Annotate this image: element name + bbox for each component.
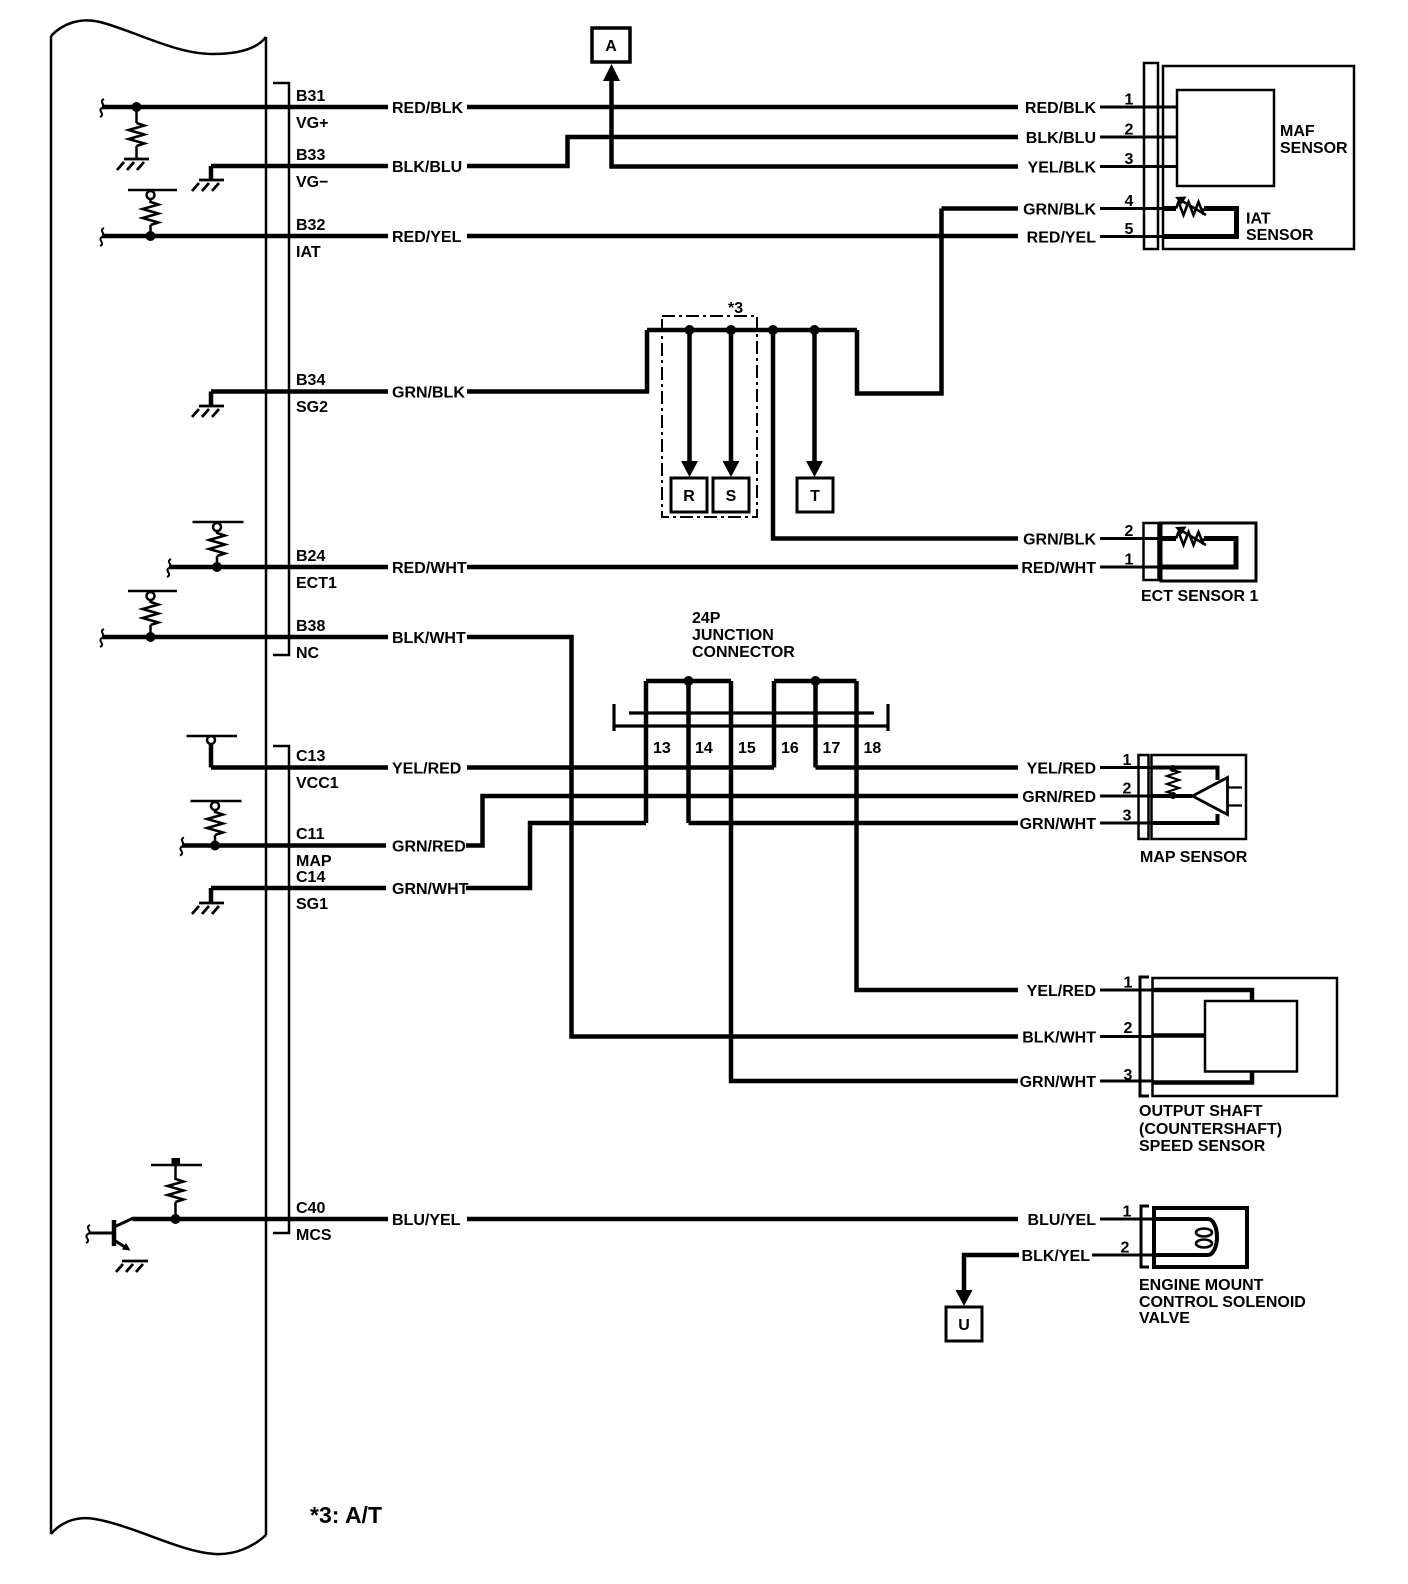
node junction dot B38 [146, 632, 156, 642]
wire label GRN/RED right [1019, 787, 1099, 806]
wire label GRN/WHT right (MAP 3) [1019, 814, 1099, 833]
power rail bar (B32 pull-up) [128, 189, 177, 192]
svg-text:S: S [726, 488, 737, 505]
wire label RED/YEL right [1019, 228, 1099, 247]
node dot MAP resistor top [1170, 765, 1177, 772]
svg-text:BLK/BLU: BLK/BLU [392, 159, 462, 176]
node junction dot B24 [212, 562, 222, 572]
svg-text:18: 18 [864, 740, 882, 757]
svg-text:T: T [810, 488, 820, 505]
svg-text:IAT: IAT [1246, 211, 1271, 228]
wire label YEL/RED left [388, 759, 467, 778]
svg-text:A: A [605, 38, 617, 55]
wire stub speed sensor pin 1 [1100, 989, 1153, 992]
svg-text:YEL/BLK: YEL/BLK [1028, 160, 1097, 177]
svg-text:GRN/BLK: GRN/BLK [1023, 532, 1096, 549]
wire label GRN/BLK right (ECT 2) [1019, 530, 1099, 549]
resistor R3 (B24 pull-up) [209, 531, 225, 567]
ground G3 (SG2) [192, 406, 224, 417]
MAF sensor connector bar [1144, 63, 1158, 249]
ground G2 (VG-) [192, 180, 224, 191]
svg-text:RED/BLK: RED/BLK [1025, 100, 1097, 117]
wire stub MAF pin 1 [1100, 106, 1177, 109]
flag S drop wire [729, 330, 734, 463]
wire label BLK/WHT right (speed 2) [1019, 1028, 1099, 1047]
svg-text:RED/YEL: RED/YEL [392, 229, 462, 246]
MAF sensor element box [1177, 90, 1274, 186]
MAP sensor outer box [1152, 755, 1247, 839]
wire stub ECT pin 2 [1100, 537, 1161, 540]
svg-text:B31: B31 [296, 88, 325, 105]
wire label GRN/WHT right (speed 3) [1019, 1072, 1099, 1091]
junction column 13 [644, 681, 649, 823]
flag A arrowhead [603, 64, 620, 81]
svg-text:SG1: SG1 [296, 896, 328, 913]
svg-text:2: 2 [1123, 781, 1132, 798]
junction staple pins 16-18 [774, 679, 857, 684]
wire C14 SG1 GRN/WHT row jog up to junction pin 13 [211, 886, 386, 891]
op-amp triangle MAP [1193, 778, 1228, 815]
power rail bar (C13 VCC) [187, 735, 238, 738]
svg-text:JUNCTION: JUNCTION [692, 627, 774, 644]
wire stub MAP pin 3 [1100, 822, 1152, 825]
resistor R1 (B31 pull-down) [129, 107, 145, 158]
wire stub MAF pin 4 [1100, 207, 1174, 210]
svg-text:3: 3 [1124, 1067, 1133, 1084]
flag S box [713, 478, 749, 512]
svg-text:BLK/BLU: BLK/BLU [1026, 130, 1096, 147]
power rail bar (B38 pull-up) [128, 590, 177, 593]
speed sensor internal lead pin 3 [1153, 1072, 1253, 1083]
IAT sensor element (thermistor loop) [1163, 206, 1176, 211]
svg-text:C13: C13 [296, 748, 325, 765]
flag T arrowhead [806, 461, 823, 477]
power rail bar (B24 pull-up) [193, 521, 244, 524]
wire stub MAF pin 5 [1100, 235, 1166, 238]
wire label BLK/BLU left [388, 157, 467, 176]
node junction dot staple pin 17 [811, 676, 821, 686]
node junction dot B32 [146, 231, 156, 241]
svg-text:BLU/YEL: BLU/YEL [1028, 1212, 1097, 1229]
svg-text:BLU/YEL: BLU/YEL [392, 1212, 461, 1229]
node open circle C13 [207, 736, 215, 744]
svg-text:(COUNTERSHAFT): (COUNTERSHAFT) [1139, 1121, 1282, 1138]
wire junction pin 14 to MAP pin 3 GRN/WHT [689, 821, 1019, 826]
svg-text:NC: NC [296, 645, 320, 662]
node junction dot staple pin 14 [684, 676, 694, 686]
node junction dot bus S tap [726, 325, 736, 335]
speed sensor outer box [1153, 978, 1338, 1096]
svg-text:1: 1 [1125, 92, 1134, 109]
node dot MAP resistor bottom [1170, 792, 1177, 799]
svg-text:C40: C40 [296, 1200, 325, 1217]
resistor R7 (MAP internal) [1167, 768, 1179, 797]
ground G5 (emitter) [116, 1261, 148, 1272]
flag R arrowhead [681, 461, 698, 477]
flag U box [946, 1307, 982, 1341]
svg-text:BLK/YEL: BLK/YEL [1022, 1248, 1091, 1265]
svg-text:RED/BLK: RED/BLK [392, 100, 464, 117]
MAP sensor internal ground wire [1152, 814, 1218, 823]
MAP sensor connector bar [1139, 755, 1149, 839]
MAP sensor internal supply wire [1152, 768, 1218, 781]
flag S arrowhead [723, 461, 740, 477]
power rail bar (C40 pull-up) [151, 1164, 202, 1167]
resistor R4 (B38 pull-up) [143, 600, 159, 637]
wire B24 ECT1 RED/WHT row to ECT pin 1 [169, 565, 1018, 570]
svg-text:YEL/RED: YEL/RED [1027, 761, 1096, 778]
junction column 16 [772, 681, 777, 768]
thermistor symbol ECT [1176, 532, 1204, 545]
wire SG2 to ground [209, 392, 214, 406]
junction column 17 [813, 681, 818, 768]
node open circle B38 [147, 592, 155, 600]
wire label BLK/BLU right [1019, 128, 1099, 147]
wire stub MAF pin 2 [1100, 136, 1177, 139]
wire C13 up to power rail [209, 743, 214, 768]
svg-text:15: 15 [738, 740, 756, 757]
svg-text:1: 1 [1124, 975, 1133, 992]
transistor Q1 base lead [89, 1232, 115, 1235]
wire label RED/YEL left [388, 227, 467, 246]
wire C40 MCS BLU/YEL row to solenoid pin 1 [133, 1217, 1019, 1222]
speed sensor internal lead pin 2 [1153, 1033, 1206, 1038]
svg-text:C11: C11 [296, 826, 325, 843]
wire bus step down to GRN/BLK vertical [857, 209, 942, 394]
wire stub speed sensor pin 2 [1100, 1035, 1153, 1038]
svg-text:BLK/WHT: BLK/WHT [392, 630, 466, 647]
wire junction pin 18 down to speed sensor pin 1 YEL/RED [857, 681, 1019, 990]
ECM torn-edge body outline [51, 20, 266, 1554]
svg-text:1: 1 [1123, 752, 1132, 769]
node junction dot C11 [210, 841, 220, 851]
flag R drop wire [687, 330, 692, 463]
svg-text:SENSOR: SENSOR [1246, 227, 1314, 244]
wire label GRN/BLK left [388, 383, 467, 402]
svg-text:R: R [683, 488, 695, 505]
flag R box [671, 478, 707, 512]
dash-dot box *3 A/T option around flags R,S [662, 316, 757, 517]
svg-text:4: 4 [1125, 193, 1134, 210]
svg-text:VG−: VG− [296, 174, 328, 191]
wire label BLK/WHT left [388, 628, 467, 647]
wire stub speed sensor pin 3 [1100, 1080, 1153, 1083]
svg-text:RED/YEL: RED/YEL [1027, 230, 1097, 247]
ground G4 (SG1) [192, 903, 224, 914]
svg-text:B38: B38 [296, 618, 325, 635]
svg-text:13: 13 [653, 740, 671, 757]
wire label BLK/YEL right [1020, 1246, 1092, 1265]
wire GRN/BLK MAF pin 4 row [942, 206, 1019, 211]
node open circle B32 [147, 191, 155, 199]
svg-text:2: 2 [1125, 523, 1134, 540]
wire SG1 to ground [209, 888, 214, 902]
wire label BLU/YEL left [388, 1210, 467, 1229]
svg-text:GRN/RED: GRN/RED [392, 839, 466, 856]
wire C13 VCC1 YEL/RED row to junction pin 16 [211, 765, 774, 770]
wire stub solenoid pin 1 [1100, 1218, 1154, 1221]
wire label RED/WHT right [1019, 558, 1099, 577]
svg-text:2: 2 [1121, 1240, 1130, 1257]
svg-text:3: 3 [1123, 808, 1132, 825]
wire B38 NC BLK/WHT row down to speed sensor pin 2 [102, 637, 1018, 1037]
speed sensor connector bracket [1140, 977, 1149, 1096]
wire break mark at B24 row end [167, 559, 171, 577]
wire junction pin 15 down to speed sensor pin 3 GRN/WHT [731, 681, 1018, 1081]
svg-text:U: U [958, 1317, 970, 1334]
wire label BLU/YEL right [1019, 1210, 1099, 1229]
wire stub MAP pin 1 [1100, 766, 1152, 769]
svg-text:SENSOR: SENSOR [1280, 140, 1348, 157]
ECT sensor outer box [1161, 523, 1256, 581]
MAF sensor outer box [1163, 66, 1354, 249]
svg-text:ECT SENSOR 1: ECT SENSOR 1 [1141, 588, 1258, 605]
svg-text:MAF: MAF [1280, 123, 1315, 140]
wire label RED/BLK left [388, 98, 467, 117]
wire break mark at B38 row end [100, 629, 104, 647]
svg-text:1: 1 [1125, 552, 1134, 569]
svg-text:*3: A/T: *3: A/T [310, 1502, 382, 1528]
node junction dot C40 [171, 1214, 181, 1224]
svg-text:RED/WHT: RED/WHT [392, 560, 467, 577]
wire junction pin 17 to MAP pin 1 YEL/RED [816, 765, 1019, 770]
node junction dot bus T tap [810, 325, 820, 335]
wire BLK/YEL row from solenoid pin 2 down to flag U [964, 1255, 1019, 1291]
flag U arrowhead [956, 1290, 973, 1306]
wire label RED/WHT left [388, 558, 467, 577]
wire break mark at B32 row end [100, 228, 104, 246]
flag T box [797, 478, 833, 512]
node open circle B24 [213, 523, 221, 531]
wire label YEL/RED right (MAP 1) [1019, 759, 1099, 778]
svg-text:MAP SENSOR: MAP SENSOR [1140, 849, 1248, 866]
wire break mark at Q1 base lead end [86, 1225, 90, 1243]
wire stub MAP pin 2 [1100, 795, 1152, 798]
wire VG- to ground [209, 166, 214, 179]
resistor R6 (C40 pull-up) [168, 1166, 184, 1219]
svg-text:VG+: VG+ [296, 115, 328, 132]
svg-text:CONTROL SOLENOID: CONTROL SOLENOID [1139, 1294, 1306, 1311]
svg-text:VALVE: VALVE [1139, 1310, 1190, 1327]
node open circle C11 [211, 802, 219, 810]
ECM connector bracket C (pins C13-C40) [273, 746, 289, 1233]
svg-text:MCS: MCS [296, 1227, 332, 1244]
svg-text:24P: 24P [692, 610, 721, 627]
24P junction connector bar [614, 704, 888, 731]
wire stub solenoid pin 2 [1092, 1254, 1154, 1257]
wire B34 SG2 GRN/BLK row [211, 330, 647, 392]
wire label RED/BLK right [1019, 98, 1099, 117]
resistor R2 (B32 pull-up) [143, 199, 159, 236]
ECM connector bracket B (pins B31-B38) [273, 83, 289, 655]
svg-text:16: 16 [781, 740, 799, 757]
svg-text:VCC1: VCC1 [296, 775, 339, 792]
svg-text:14: 14 [695, 740, 713, 757]
svg-text:*3: *3 [728, 300, 743, 317]
svg-text:GRN/RED: GRN/RED [1022, 789, 1096, 806]
wire B31 VG+ RED/BLK row to MAF pin 1 [102, 105, 1018, 110]
svg-text:GRN/WHT: GRN/WHT [1020, 816, 1097, 833]
wire break mark at B31 row end [100, 99, 104, 117]
power rail bar (C11 pull-up) [191, 800, 242, 803]
svg-text:YEL/RED: YEL/RED [392, 761, 461, 778]
svg-text:ECT1: ECT1 [296, 575, 337, 592]
ECT sensor connector bar [1144, 523, 1159, 580]
junction column 14 [686, 681, 691, 823]
thermistor symbol IAT [1176, 202, 1204, 215]
svg-text:OUTPUT SHAFT: OUTPUT SHAFT [1139, 1103, 1263, 1120]
speed sensor internal lead pin 1 [1153, 990, 1253, 1001]
junction staple pins 13-15 [646, 679, 731, 684]
svg-text:ENGINE MOUNT: ENGINE MOUNT [1139, 1277, 1264, 1294]
svg-text:B34: B34 [296, 372, 325, 389]
wire break mark at C11 row end [180, 838, 184, 856]
wire stub ECT pin 1 [1100, 566, 1161, 569]
node junction dot bus R tap [685, 325, 695, 335]
svg-text:YEL/RED: YEL/RED [1027, 983, 1096, 1000]
wire C11 MAP GRN/RED row jog up to MAP pin 2 [182, 843, 386, 848]
svg-text:GRN/WHT: GRN/WHT [392, 881, 469, 898]
svg-text:RED/WHT: RED/WHT [1021, 560, 1096, 577]
flag T drop wire [812, 330, 817, 463]
solenoid coil L1 [1154, 1219, 1217, 1255]
flag A box [592, 28, 630, 62]
svg-text:B33: B33 [296, 147, 325, 164]
svg-text:GRN/BLK: GRN/BLK [1023, 202, 1096, 219]
svg-text:17: 17 [823, 740, 841, 757]
svg-text:1: 1 [1123, 1204, 1132, 1221]
node junction dot bus ECT tap [768, 325, 778, 335]
wire B32 IAT RED/YEL row to MAF pin 5 [102, 234, 1018, 239]
svg-text:MAP: MAP [296, 853, 332, 870]
wire sensor-ground bus [647, 328, 857, 333]
engine mount control solenoid valve box [1154, 1208, 1247, 1267]
wire stub MAF pin 3 [1100, 165, 1177, 168]
svg-text:CONNECTOR: CONNECTOR [692, 644, 795, 661]
svg-text:GRN/BLK: GRN/BLK [392, 385, 465, 402]
svg-text:IAT: IAT [296, 244, 321, 261]
wire from flag A down to YEL/BLK row to MAF pin 3 [612, 76, 1019, 167]
svg-text:SG2: SG2 [296, 399, 328, 416]
wire B33 VG- BLK/BLU row with jog up to MAF pin 2 [211, 137, 1018, 166]
speed sensor element box [1205, 1001, 1297, 1072]
svg-text:SPEED SENSOR: SPEED SENSOR [1139, 1138, 1266, 1155]
transistor Q1 collector [114, 1218, 134, 1227]
svg-text:BLK/WHT: BLK/WHT [1022, 1030, 1096, 1047]
svg-text:2: 2 [1124, 1020, 1133, 1037]
wire label GRN/BLK right (MAF 4) [1019, 200, 1099, 219]
ECT sensor internal wire [1161, 536, 1176, 541]
MAP sensor internal signal wire [1152, 794, 1193, 798]
wire label YEL/BLK right [1019, 158, 1099, 177]
svg-text:B32: B32 [296, 217, 325, 234]
transistor Q1 emitter with arrow [114, 1240, 128, 1249]
terminal square C40 pull-up top [172, 1158, 181, 1166]
transistor Q1 base bar [112, 1220, 117, 1246]
ground G1 [117, 159, 149, 170]
svg-text:5: 5 [1125, 221, 1134, 238]
wire bus drop to ECT sensor GRN/BLK row [773, 330, 1018, 539]
resistor R5 (C11 pull-up) [207, 810, 223, 846]
svg-text:2: 2 [1125, 122, 1134, 139]
node junction dot B31 pull-down [132, 102, 142, 112]
op-amp output stubs [1228, 788, 1243, 806]
solenoid connector bracket [1141, 1206, 1149, 1267]
svg-text:B24: B24 [296, 548, 325, 565]
svg-text:3: 3 [1125, 151, 1134, 168]
svg-text:GRN/WHT: GRN/WHT [1020, 1074, 1097, 1091]
wire label YEL/RED right (speed 1) [1019, 981, 1099, 1000]
svg-text:C14: C14 [296, 869, 325, 886]
